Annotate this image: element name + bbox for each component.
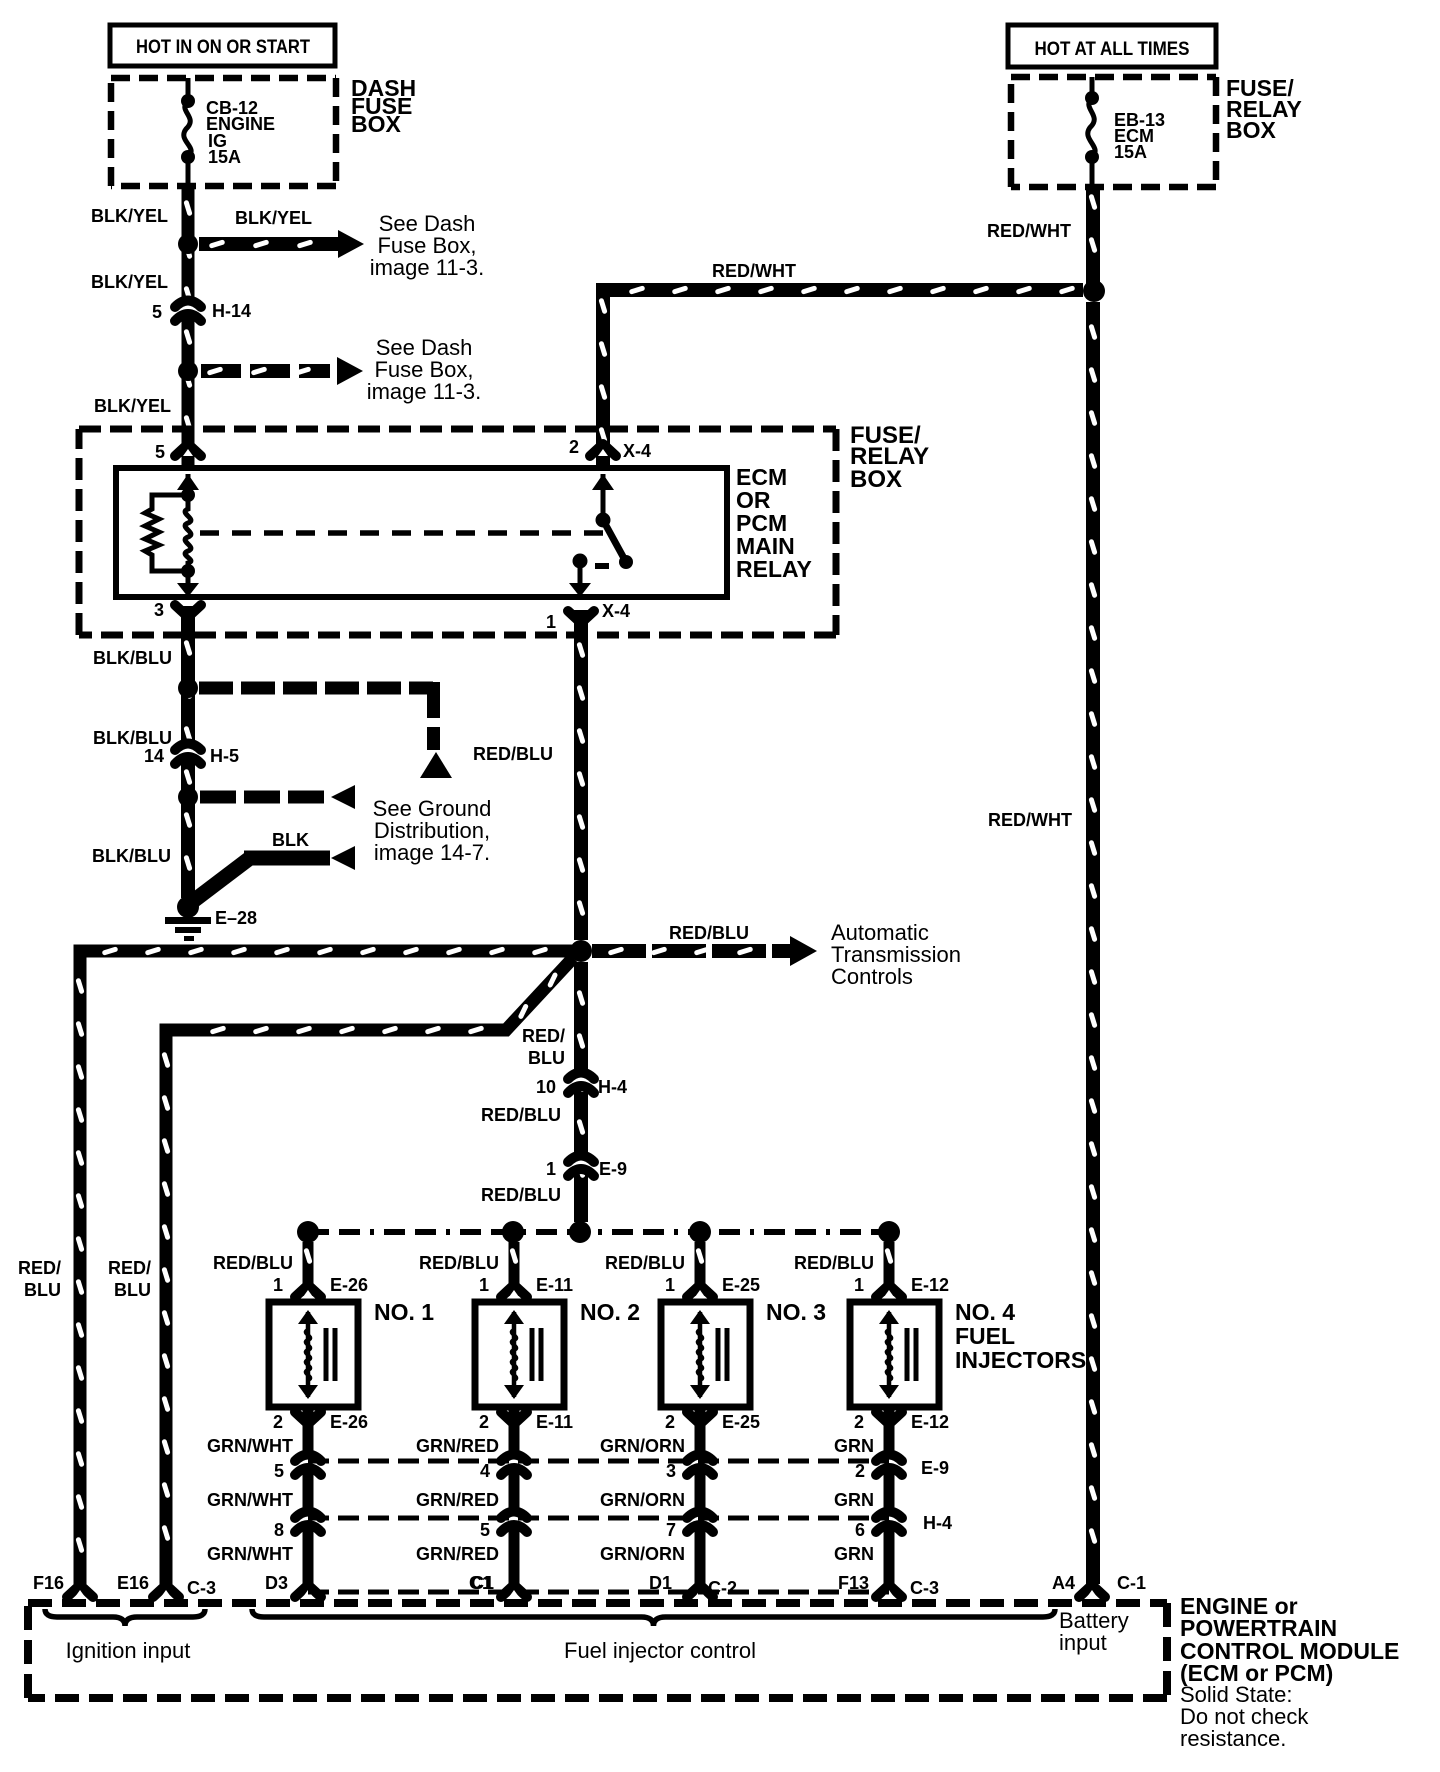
svg-text:1: 1 (273, 1275, 283, 1295)
ENGINE or POWERTRAIN CONTROL MODULE box (dashed) (28, 1599, 1167, 1607)
svg-text:GRN: GRN (834, 1490, 874, 1510)
dashed stub to See Ground Distribution (200, 791, 330, 804)
svg-text:image 11-3.: image 11-3. (367, 379, 482, 404)
svg-text:RED/BLU: RED/BLU (794, 1253, 874, 1273)
wire arrow to See Dash Fuse Box (2) (201, 364, 330, 378)
svg-text:GRN/ORN: GRN/ORN (600, 1490, 685, 1510)
svg-text:HOT AT ALL TIMES: HOT AT ALL TIMES (1035, 39, 1190, 60)
svg-text:5: 5 (152, 302, 162, 322)
wire GRN/RED injector 2 to ECM (509, 1410, 520, 1584)
wire GRN/WHT injector 1 to ECM (303, 1410, 314, 1584)
svg-text:H-14: H-14 (212, 301, 251, 321)
wire RED/WHT horizontal to relay pin 2 (603, 290, 1083, 465)
junction dot (178, 678, 198, 698)
svg-text:HOT IN ON OR START: HOT IN ON OR START (136, 37, 310, 58)
svg-text:3: 3 (154, 600, 164, 620)
label box: HOT AT ALL TIMES (1008, 25, 1216, 67)
svg-text:RED/BLU: RED/BLU (419, 1253, 499, 1273)
ECM pin C1 (501, 1585, 527, 1597)
relay link (dashed) between coil and switch (200, 530, 604, 536)
svg-text:BLK/BLU: BLK/BLU (93, 728, 172, 748)
svg-text:RELAY: RELAY (736, 556, 812, 582)
pin 2 connector X-4 (590, 444, 616, 456)
wire: fuse feed inside dash fuse box (186, 78, 191, 101)
svg-text:resistance.: resistance. (1180, 1726, 1286, 1751)
svg-text:BLK/YEL: BLK/YEL (91, 272, 168, 292)
pin 1 connector E-11 (501, 1285, 527, 1297)
injector 4 internals (coil with core) (887, 1312, 892, 1397)
label box: HOT IN ON OR START (110, 25, 335, 66)
ECM pin F13 (876, 1585, 902, 1597)
wire RED/WHT long vertical to ECM battery input (1086, 302, 1100, 1584)
svg-text:E-11: E-11 (536, 1275, 573, 1295)
injector column 4 feed wire RED/BLU (884, 1242, 895, 1296)
reference arrow (up) RED/BLU (420, 752, 452, 778)
dashed link row ECM pins (308, 1590, 889, 1595)
svg-text:5: 5 (155, 442, 165, 462)
fuse/relay box (dashed enclosure, top right) (1011, 74, 1216, 81)
wire BLK stub with arrow (244, 851, 330, 866)
svg-text:E-26: E-26 (330, 1275, 368, 1295)
fuse/relay box (dashed enclosure, middle) (79, 426, 836, 433)
svg-text:FUEL: FUEL (955, 1323, 1015, 1349)
dashed supply rail to injectors (308, 1229, 889, 1235)
rail junction dot (502, 1221, 524, 1243)
svg-text:BLK/YEL: BLK/YEL (91, 206, 168, 226)
svg-text:GRN/WHT: GRN/WHT (207, 1490, 293, 1510)
svg-text:E–28: E–28 (215, 908, 257, 928)
wire BLK/BLU relay pin 3 down to ground (181, 606, 195, 898)
svg-text:BLU: BLU (24, 1280, 61, 1300)
pin 2 connector E-26 (295, 1412, 321, 1424)
svg-text:H-5: H-5 (210, 746, 239, 766)
relay coil branch (left) (186, 474, 191, 495)
svg-text:GRN/ORN: GRN/ORN (600, 1544, 685, 1564)
fuse CB-12 ENGINE IG 15A (181, 94, 195, 108)
svg-text:BLK: BLK (272, 830, 309, 850)
svg-text:E-9: E-9 (921, 1458, 949, 1478)
svg-text:6: 6 (855, 1520, 865, 1540)
connector row E-9 col 4 (881, 1458, 898, 1467)
svg-text:E-25: E-25 (722, 1412, 760, 1432)
svg-text:F16: F16 (33, 1573, 64, 1593)
injector column 2 feed wire RED/BLU (509, 1242, 520, 1296)
svg-text:E-12: E-12 (911, 1275, 949, 1295)
svg-text:E-9: E-9 (599, 1159, 627, 1179)
pin 1 connector E-12 (876, 1285, 902, 1297)
svg-text:Controls: Controls (831, 964, 913, 989)
svg-text:14: 14 (144, 746, 164, 766)
svg-text:NO. 2: NO. 2 (580, 1299, 640, 1325)
svg-text:BLK/YEL: BLK/YEL (235, 208, 312, 228)
svg-text:5: 5 (274, 1461, 284, 1481)
fuel injector NO. 3 box (661, 1302, 750, 1407)
injector 3 internals (coil with core) (698, 1312, 703, 1397)
svg-text:RED/BLU: RED/BLU (669, 923, 749, 943)
svg-text:GRN/RED: GRN/RED (416, 1490, 499, 1510)
svg-text:C-3: C-3 (910, 1578, 939, 1598)
relay ECM OR PCM MAIN RELAY box (116, 468, 727, 597)
svg-text:BLK/BLU: BLK/BLU (92, 846, 171, 866)
svg-text:E-26: E-26 (330, 1412, 368, 1432)
svg-text:NO. 4: NO. 4 (955, 1299, 1015, 1325)
injector 2 internals (coil with core) (512, 1312, 517, 1397)
svg-text:RED/BLU: RED/BLU (481, 1185, 561, 1205)
svg-text:INJECTORS: INJECTORS (955, 1347, 1086, 1373)
ECM pin D3 (295, 1585, 321, 1597)
dash fuse box (dashed enclosure) (111, 75, 336, 82)
svg-text:input: input (1059, 1630, 1107, 1655)
svg-text:RED/: RED/ (108, 1258, 151, 1278)
relay switch (right) (592, 474, 614, 490)
svg-text:E-25: E-25 (722, 1275, 760, 1295)
svg-text:X-4: X-4 (623, 441, 651, 461)
svg-text:8: 8 (274, 1520, 284, 1540)
fuse EB-13 ECM 15A (1085, 91, 1099, 105)
ECM pin A4 / C-1 (1079, 1585, 1105, 1597)
svg-text:GRN/WHT: GRN/WHT (207, 1436, 293, 1456)
svg-text:H-4: H-4 (923, 1513, 952, 1533)
svg-text:D3: D3 (265, 1573, 288, 1593)
wire RED/BLU relay pin 1 down to junction (574, 610, 588, 940)
svg-text:E16: E16 (117, 1573, 149, 1593)
junction dot (178, 787, 198, 807)
injector column 1 feed wire RED/BLU (303, 1242, 314, 1296)
svg-text:15A: 15A (208, 147, 241, 167)
svg-text:BLU: BLU (114, 1280, 151, 1300)
rail junction dot (878, 1221, 900, 1243)
pin 1 connector E-25 (687, 1285, 713, 1297)
brace: Fuel injector control (252, 1609, 1055, 1626)
wire RED/WHT from EB-13 fuse down (1086, 187, 1100, 291)
wire BLK/YEL from dash fuse box (182, 186, 195, 465)
pin 3 connector (175, 605, 201, 617)
wire RED/BLU junction arrow to Automatic Transmission Controls (592, 944, 790, 958)
rail junction dot (297, 1221, 319, 1243)
svg-text:2: 2 (854, 1412, 864, 1432)
rail junction dot (689, 1221, 711, 1243)
svg-text:4: 4 (480, 1461, 490, 1481)
svg-text:RED/BLU: RED/BLU (213, 1253, 293, 1273)
dashed link row E-9 (308, 1459, 889, 1464)
svg-text:E-12: E-12 (911, 1412, 949, 1432)
svg-text:image 14-7.: image 14-7. (374, 840, 490, 865)
ECM pin F16 (67, 1585, 93, 1597)
svg-text:RED/WHT: RED/WHT (987, 221, 1071, 241)
wire diagonal to ground (192, 858, 250, 902)
svg-text:GRN: GRN (834, 1436, 874, 1456)
svg-text:GRN/WHT: GRN/WHT (207, 1544, 293, 1564)
injector 1 internals (coil with core) (306, 1312, 311, 1397)
connector E-9 pin 1 (573, 1159, 590, 1168)
svg-text:GRN/ORN: GRN/ORN (600, 1436, 685, 1456)
svg-text:Fuel injector control: Fuel injector control (564, 1638, 756, 1663)
wire RED/BLU horizontal to left branch F16 (80, 951, 575, 1584)
connector row H-4 col 1 (300, 1515, 317, 1524)
wire RED/BLU junction down to injector rail (574, 962, 588, 1222)
svg-text:RED/WHT: RED/WHT (988, 810, 1072, 830)
wire arrow to See Dash Fuse Box (1) (199, 237, 338, 251)
connector row E-9 col 3 (692, 1458, 709, 1467)
svg-text:RED/BLU: RED/BLU (481, 1105, 561, 1125)
pin 1 connector E-26 (295, 1285, 321, 1297)
svg-text:15A: 15A (1114, 142, 1147, 162)
ECM pin D1 (687, 1585, 713, 1597)
svg-text:GRN/RED: GRN/RED (416, 1544, 499, 1564)
svg-text:H-4: H-4 (598, 1077, 627, 1097)
svg-text:RED/BLU: RED/BLU (473, 744, 553, 764)
svg-text:BOX: BOX (351, 111, 402, 137)
dashed link row H-4 (308, 1516, 889, 1521)
junction dot (178, 361, 198, 381)
connector H-5 pin 14 (180, 747, 197, 756)
svg-text:GRN/RED: GRN/RED (416, 1436, 499, 1456)
svg-text:E-11: E-11 (536, 1412, 573, 1432)
svg-text:BOX: BOX (1226, 117, 1277, 143)
svg-text:image 11-3.: image 11-3. (370, 255, 485, 280)
connector row H-4 col 4 (881, 1515, 898, 1524)
svg-text:X-4: X-4 (602, 601, 630, 621)
wire GRN/ORN injector 3 to ECM (695, 1410, 706, 1584)
svg-text:RED/: RED/ (522, 1026, 565, 1046)
fuel injector NO. 4 box (850, 1302, 939, 1407)
wire GRN injector 4 to ECM (884, 1410, 895, 1584)
connector row E-9 col 1 (300, 1458, 317, 1467)
svg-text:C-2: C-2 (708, 1578, 737, 1598)
wire: fuse feed inside box (1090, 77, 1095, 98)
pin 2 connector E-12 (876, 1412, 902, 1424)
svg-text:2: 2 (665, 1412, 675, 1432)
injector column 3 feed wire RED/BLU (695, 1242, 706, 1296)
pin 2 connector E-25 (687, 1412, 713, 1424)
svg-text:Ignition input: Ignition input (66, 1638, 191, 1663)
svg-text:7: 7 (666, 1520, 676, 1540)
ground E-28 (177, 896, 199, 918)
svg-text:C1: C1 (469, 1573, 492, 1593)
wire RED/BLU diagonal branch to E16 (166, 958, 573, 1584)
svg-text:RED/: RED/ (18, 1258, 61, 1278)
connector row E-9 col 2 (506, 1458, 523, 1467)
svg-text:1: 1 (479, 1275, 489, 1295)
fuel injector NO. 1 box (269, 1302, 358, 1407)
pin 5 connector into relay box (175, 444, 201, 456)
svg-text:NO. 3: NO. 3 (766, 1299, 826, 1325)
svg-text:1: 1 (546, 1159, 556, 1179)
main junction dot (570, 940, 592, 962)
svg-text:RED/BLU: RED/BLU (605, 1253, 685, 1273)
pin 2 connector E-11 (501, 1412, 527, 1424)
svg-text:C-1: C-1 (1117, 1573, 1146, 1593)
svg-text:BLK/BLU: BLK/BLU (93, 648, 172, 668)
fuel injector NO. 2 box (475, 1302, 564, 1407)
svg-text:NO. 1: NO. 1 (374, 1299, 434, 1325)
svg-text:5: 5 (480, 1520, 490, 1540)
svg-text:GRN: GRN (834, 1544, 874, 1564)
svg-text:1: 1 (854, 1275, 864, 1295)
svg-text:2: 2 (273, 1412, 283, 1432)
connector row H-4 col 3 (692, 1515, 709, 1524)
junction dot RED/WHT (1083, 280, 1105, 302)
svg-text:2: 2 (479, 1412, 489, 1432)
svg-text:2: 2 (855, 1461, 865, 1481)
rail junction dot (569, 1221, 591, 1243)
connector H-14 pin 5 (180, 304, 197, 313)
svg-text:1: 1 (546, 612, 556, 632)
svg-text:BOX: BOX (850, 466, 902, 493)
ECM pin E16 / C-3 (153, 1585, 179, 1597)
pin 1 connector X-4 (568, 611, 594, 623)
junction dot (178, 234, 198, 254)
connector row H-4 col 2 (506, 1515, 523, 1524)
svg-text:BLK/YEL: BLK/YEL (94, 396, 171, 416)
svg-text:1: 1 (665, 1275, 675, 1295)
svg-text:10: 10 (536, 1077, 556, 1097)
svg-text:A4: A4 (1052, 1573, 1075, 1593)
connector H-4 pin 10 (573, 1076, 590, 1085)
svg-text:C-3: C-3 (187, 1578, 216, 1598)
svg-text:2: 2 (569, 437, 579, 457)
brace: Ignition input (45, 1609, 205, 1626)
svg-text:BLU: BLU (528, 1048, 565, 1068)
svg-text:3: 3 (666, 1461, 676, 1481)
svg-text:RED/WHT: RED/WHT (712, 261, 796, 281)
dashed stub wire to RED/BLU reference arrow (199, 682, 433, 695)
